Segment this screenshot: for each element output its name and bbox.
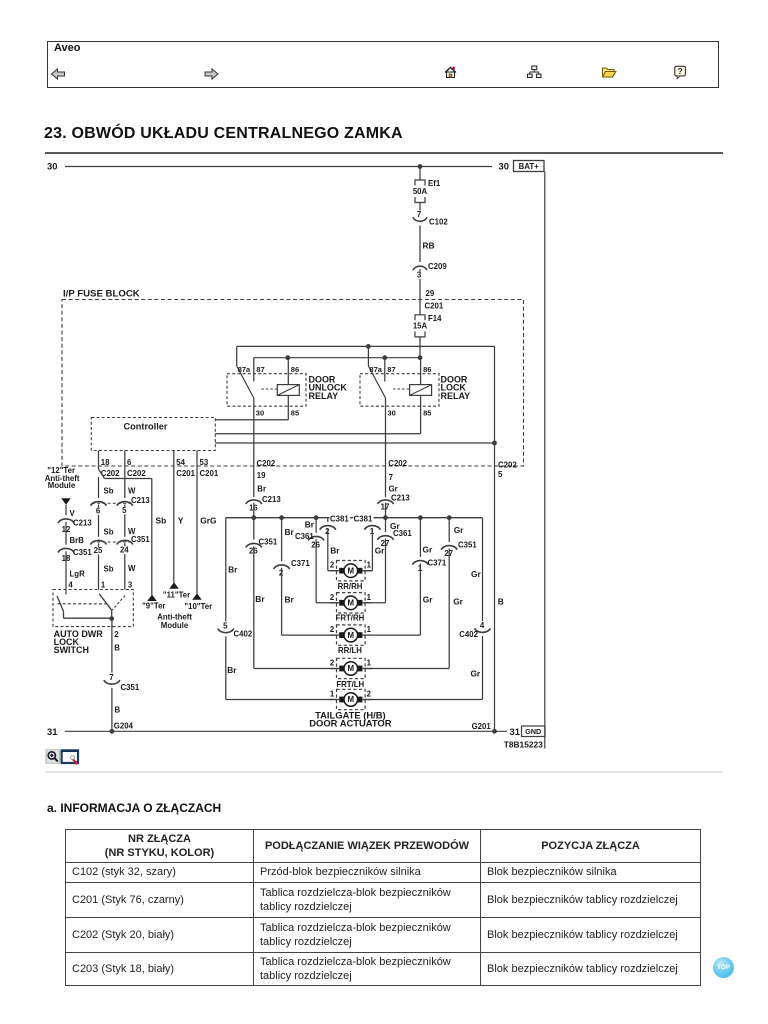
svg-text:C402: C402 [234,630,253,639]
svg-text:6: 6 [96,507,101,516]
svg-text:"11"Ter: "11"Ter [163,591,190,600]
svg-text:C213: C213 [131,496,150,505]
svg-text:C202: C202 [388,459,407,468]
svg-text:C202: C202 [127,469,146,478]
svg-text:Gr: Gr [470,668,480,678]
svg-text:87a: 87a [369,365,382,374]
svg-text:C201: C201 [425,302,444,311]
svg-text:Br: Br [257,485,266,494]
svg-text:1: 1 [367,659,372,668]
svg-text:86: 86 [291,365,299,374]
svg-text:RB: RB [423,241,435,251]
svg-text:Br: Br [330,545,340,555]
svg-text:31: 31 [510,726,520,737]
svg-text:Module: Module [48,481,76,490]
svg-text:RR/RH: RR/RH [338,582,363,591]
svg-text:GrG: GrG [200,516,216,526]
svg-text:FRT/RH: FRT/RH [336,613,365,622]
svg-text:53: 53 [200,458,209,467]
svg-text:M: M [348,664,355,673]
svg-text:C213: C213 [73,518,92,527]
svg-text:30: 30 [256,408,264,417]
svg-text:C213: C213 [391,494,410,503]
svg-text:C351: C351 [458,540,477,549]
svg-text:Gr: Gr [453,597,463,607]
svg-text:F14: F14 [428,314,442,323]
svg-text:87a: 87a [238,365,251,374]
svg-text:C381: C381 [330,514,349,523]
svg-text:C202: C202 [257,459,276,468]
svg-text:4: 4 [480,621,485,630]
svg-text:7: 7 [389,473,394,482]
svg-text:1: 1 [330,690,335,699]
svg-text:W: W [128,487,136,496]
svg-text:5: 5 [498,470,503,479]
svg-text:Br: Br [305,519,315,529]
svg-text:50A: 50A [413,187,428,196]
svg-text:7: 7 [109,673,114,682]
svg-text:Br: Br [285,527,295,537]
svg-text:3: 3 [417,271,422,280]
svg-text:Gr: Gr [471,569,481,579]
svg-text:C381: C381 [354,514,373,523]
svg-text:2: 2 [330,593,335,602]
svg-text:Sb: Sb [104,487,114,496]
svg-text:C351: C351 [131,535,150,544]
svg-text:30: 30 [47,161,57,172]
svg-text:Sb: Sb [156,516,167,526]
svg-text:19: 19 [257,471,266,480]
svg-text:25: 25 [94,546,103,555]
svg-text:Br: Br [227,665,237,675]
svg-text:Sb: Sb [104,565,114,574]
svg-text:2: 2 [330,659,335,668]
svg-text:29: 29 [426,289,435,298]
svg-text:Controller: Controller [124,422,168,432]
svg-text:Br: Br [255,594,265,604]
svg-text:C351: C351 [259,537,278,546]
svg-text:M: M [348,599,355,608]
svg-text:M: M [348,631,355,640]
svg-text:I/P FUSE BLOCK: I/P FUSE BLOCK [63,289,140,300]
svg-text:C201: C201 [176,469,195,478]
svg-text:C201: C201 [200,469,219,478]
svg-text:2: 2 [367,690,372,699]
svg-text:Br: Br [285,595,295,605]
svg-text:DOOR ACTUATOR: DOOR ACTUATOR [309,718,391,729]
svg-text:C202: C202 [498,461,517,470]
svg-text:M: M [348,695,355,704]
svg-text:B: B [114,644,120,653]
svg-text:RELAY: RELAY [441,391,471,401]
svg-text:"10"Ter: "10"Ter [184,602,212,611]
svg-text:G204: G204 [114,721,134,730]
svg-text:T8B15223: T8B15223 [504,740,543,750]
svg-text:C213: C213 [262,495,281,504]
svg-text:85: 85 [423,408,431,417]
svg-text:SWITCH: SWITCH [54,645,89,655]
svg-text:2: 2 [330,561,335,570]
svg-text:6: 6 [127,458,132,467]
svg-text:1: 1 [367,593,372,602]
svg-text:7: 7 [417,210,422,219]
svg-text:1: 1 [367,561,372,570]
svg-text:Br: Br [228,565,238,575]
svg-text:GND: GND [525,727,541,736]
svg-text:Gr: Gr [454,525,464,535]
svg-text:BrB: BrB [70,536,85,545]
svg-text:86: 86 [423,365,431,374]
svg-text:V: V [70,509,76,518]
svg-text:1: 1 [101,580,106,589]
svg-text:1: 1 [367,625,372,634]
svg-text:B: B [498,597,504,607]
svg-text:18: 18 [101,458,110,467]
svg-text:4: 4 [68,580,73,589]
svg-text:BAT+: BAT+ [519,162,540,171]
svg-text:Module: Module [161,621,189,630]
svg-text:87: 87 [387,365,395,374]
svg-text:Ef1: Ef1 [428,179,441,188]
svg-text:M: M [348,566,355,575]
svg-text:FRT/LH: FRT/LH [336,680,364,689]
svg-text:5: 5 [223,621,228,630]
svg-text:31: 31 [47,726,57,737]
svg-text:C351: C351 [121,683,140,692]
svg-text:2: 2 [114,630,119,639]
svg-text:RR/LH: RR/LH [338,646,362,655]
svg-text:Gr: Gr [423,544,433,554]
svg-text:24: 24 [120,546,129,555]
svg-text:5: 5 [122,506,127,515]
svg-text:87: 87 [256,365,264,374]
svg-text:Y: Y [178,516,184,526]
svg-text:RELAY: RELAY [309,391,339,401]
svg-text:W: W [128,564,136,573]
svg-text:Sb: Sb [104,528,114,537]
svg-text:C361: C361 [393,529,412,538]
svg-text:Gr: Gr [423,595,433,605]
svg-text:15A: 15A [413,321,428,330]
svg-text:B: B [115,706,121,715]
svg-text:30: 30 [499,161,509,172]
svg-text:C361: C361 [295,532,314,541]
svg-text:85: 85 [291,408,299,417]
svg-text:G201: G201 [472,722,492,731]
svg-text:C209: C209 [428,262,447,271]
svg-text:30: 30 [388,408,396,417]
svg-text:54: 54 [176,458,185,467]
svg-text:C371: C371 [428,558,447,567]
svg-text:Gr: Gr [389,485,398,494]
svg-text:C402: C402 [459,630,478,639]
svg-text:C371: C371 [291,559,310,568]
svg-text:C102: C102 [429,218,448,227]
svg-text:LgR: LgR [70,570,86,579]
svg-text:C351: C351 [73,548,92,557]
svg-text:2: 2 [330,625,335,634]
svg-text:"9"Ter: "9"Ter [142,602,165,611]
svg-text:3: 3 [128,580,133,589]
